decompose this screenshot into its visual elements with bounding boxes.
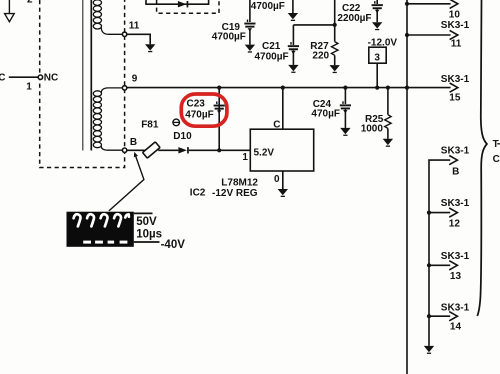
connector dashed boundary left bbox=[40, 0, 125, 168]
waveform pulses bbox=[74, 214, 129, 226]
wire SK3-1 13 bbox=[429, 264, 450, 266]
wire fuse to diode bbox=[158, 149, 178, 151]
junction C23 top bbox=[217, 86, 221, 90]
junction C23 bottom bbox=[217, 148, 221, 152]
red annotation oval around C23 bbox=[181, 94, 227, 126]
junction R25 bbox=[386, 86, 390, 90]
ground R25 bbox=[383, 139, 393, 147]
svg-text:F81: F81 bbox=[141, 120, 159, 131]
-12V bus wire bbox=[127, 87, 451, 89]
callout line from scope bbox=[109, 155, 144, 211]
fuse F81 bbox=[143, 142, 160, 158]
ground C24 bbox=[340, 128, 350, 136]
node NC pin 1 bbox=[38, 75, 42, 79]
junction test point bbox=[375, 86, 379, 90]
svg-text:2200µF: 2200µF bbox=[337, 13, 371, 24]
svg-text:B: B bbox=[452, 166, 459, 177]
svg-text:10µs: 10µs bbox=[136, 228, 162, 240]
svg-text:1000: 1000 bbox=[361, 124, 384, 135]
svg-text:SK3-1: SK3-1 bbox=[441, 198, 470, 209]
regulator IC2 box bbox=[250, 129, 313, 171]
wire test point to bus bbox=[376, 63, 378, 87]
C20 ground lead bbox=[292, 0, 294, 13]
svg-text:0: 0 bbox=[274, 174, 280, 185]
junction arrow 10 bbox=[405, 2, 409, 6]
svg-text:SK3-1: SK3-1 bbox=[441, 146, 470, 157]
svg-text:3: 3 bbox=[374, 53, 380, 64]
svg-text:-12V REG: -12V REG bbox=[212, 188, 258, 199]
svg-text:-40V: -40V bbox=[161, 239, 186, 251]
svg-text:11: 11 bbox=[129, 21, 140, 32]
arrowhead SK3-1 15 bbox=[450, 83, 458, 92]
svg-text:220: 220 bbox=[312, 51, 329, 62]
transformer winding lower bbox=[93, 88, 122, 150]
ground C21 bbox=[288, 65, 298, 73]
tick after T bbox=[497, 143, 500, 145]
arrowhead SK3-1 14 bbox=[449, 312, 457, 321]
callout arrowhead bbox=[134, 152, 138, 157]
junction regulator C bbox=[281, 86, 285, 90]
wire B to fuse bbox=[127, 149, 146, 151]
-40V reference line bbox=[134, 241, 160, 243]
right brace bbox=[477, 0, 487, 316]
svg-text:50V: 50V bbox=[136, 216, 157, 228]
svg-text:11: 11 bbox=[451, 39, 462, 50]
svg-text:1: 1 bbox=[242, 152, 248, 163]
resistor R27 bbox=[332, 0, 338, 65]
ground C22 bbox=[372, 22, 382, 30]
diode on top wire bbox=[178, 1, 188, 7]
wire pin11 to ground bbox=[127, 34, 150, 44]
dashed boundary top middle bbox=[157, 0, 219, 13]
svg-text:10: 10 bbox=[449, 9, 461, 20]
junction C24 bbox=[343, 86, 347, 90]
capacitor C22 bbox=[372, 0, 383, 22]
junction R27 branch bbox=[333, 23, 337, 27]
junction arrow 14 bbox=[427, 314, 431, 318]
svg-text:B: B bbox=[130, 137, 137, 148]
capacitor C21 bbox=[288, 25, 299, 65]
svg-text:9: 9 bbox=[132, 74, 138, 85]
50V reference line bbox=[134, 212, 153, 214]
svg-text:NC: NC bbox=[44, 72, 58, 83]
svg-text:5.2V: 5.2V bbox=[254, 148, 275, 159]
arrowhead SK3-1 10 bbox=[450, 0, 458, 8]
ground C20 bbox=[288, 13, 298, 21]
junction rail 15 bbox=[405, 86, 409, 90]
wire SK3-1 12 bbox=[429, 212, 450, 214]
wire branch to C21 bbox=[293, 24, 334, 26]
svg-text:C23: C23 bbox=[187, 99, 206, 110]
svg-text:C: C bbox=[493, 154, 500, 165]
arrowhead SK3-1 13 bbox=[449, 261, 457, 270]
node pin B bbox=[122, 148, 126, 152]
ground SK3-1 chain bbox=[424, 346, 434, 354]
arrowhead SK3-1 B bbox=[449, 156, 457, 165]
svg-text:1: 1 bbox=[26, 81, 32, 92]
svg-text:15: 15 bbox=[449, 93, 461, 104]
svg-text:C: C bbox=[0, 72, 5, 83]
wire diode to regulator bbox=[189, 149, 251, 151]
svg-text:4700µF: 4700µF bbox=[255, 52, 289, 63]
svg-text:SK3-1: SK3-1 bbox=[441, 74, 470, 85]
circled minus polarity mark bbox=[173, 119, 180, 126]
svg-text:14: 14 bbox=[450, 322, 462, 333]
transformer core bbox=[83, 0, 92, 151]
svg-text:4700µF: 4700µF bbox=[251, 1, 285, 12]
test point box 3 bbox=[369, 47, 386, 64]
transformer winding upper bbox=[93, 0, 122, 34]
wire SK3-1 14 bbox=[429, 315, 450, 317]
ground regulator output bbox=[278, 189, 288, 197]
svg-text:470µF: 470µF bbox=[185, 109, 214, 120]
SK3-1 B chain vertical wire bbox=[429, 160, 450, 346]
svg-text:D10: D10 bbox=[173, 131, 192, 142]
node pin 9 bbox=[122, 86, 126, 90]
capacitor C23 bbox=[214, 88, 225, 151]
svg-text:13: 13 bbox=[450, 271, 462, 282]
ground at pin 11 bbox=[145, 44, 155, 52]
svg-text:2: 2 bbox=[27, 0, 33, 6]
ground C19 bbox=[245, 45, 255, 53]
top rectifier wire bbox=[146, 0, 209, 4]
regulator C pin wire bbox=[282, 88, 284, 130]
ground R27 bbox=[330, 65, 340, 73]
junction arrow 11 bbox=[405, 33, 409, 37]
regulator output wire bbox=[282, 171, 284, 189]
resistor R25 bbox=[385, 88, 391, 139]
arrowhead SK3-1 12 bbox=[449, 208, 457, 217]
baseline dashes bbox=[83, 241, 127, 244]
svg-text:12: 12 bbox=[449, 219, 461, 230]
wire SK3-1 10 bbox=[407, 3, 451, 5]
oscilloscope screen black box bbox=[67, 212, 134, 247]
svg-text:C21: C21 bbox=[262, 41, 281, 52]
svg-text:SK3-1: SK3-1 bbox=[441, 251, 470, 262]
diode D10 bbox=[178, 147, 188, 153]
svg-text:T: T bbox=[493, 139, 499, 150]
node pin 11 bbox=[122, 32, 126, 36]
svg-text:IC2: IC2 bbox=[190, 187, 206, 198]
wire SK3-1 11 bbox=[407, 34, 451, 36]
junction arrow 13 bbox=[427, 263, 431, 267]
svg-text:SK3-1: SK3-1 bbox=[441, 20, 470, 31]
SK3-1 rail bbox=[406, 0, 408, 374]
arrowhead SK3-1 11 bbox=[450, 30, 458, 39]
svg-text:4700µF: 4700µF bbox=[212, 32, 246, 43]
capacitor C19 bbox=[244, 0, 255, 45]
chassis arrow top-left bbox=[5, 0, 15, 22]
junction arrow 12 bbox=[427, 211, 431, 215]
svg-text:470µF: 470µF bbox=[311, 109, 340, 120]
svg-text:SK3-1: SK3-1 bbox=[441, 302, 470, 313]
capacitor C24 bbox=[340, 88, 351, 128]
wire NC bbox=[9, 76, 38, 78]
svg-text:C: C bbox=[273, 119, 280, 130]
